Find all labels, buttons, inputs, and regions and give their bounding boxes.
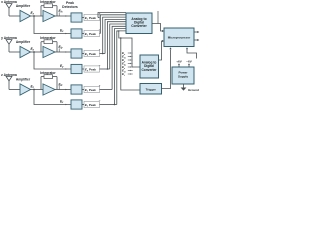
peak detector PD2 (Ex &#8722;) — [71, 29, 82, 38]
stray clock stub — [157, 11, 159, 24]
junction — [114, 104, 116, 106]
svg-text:Ey Peak: Ey Peak — [85, 52, 96, 57]
wire bus4 — [105, 19, 126, 53]
label box Ey Peak+ — [84, 50, 100, 56]
antenna x — [6, 4, 12, 9]
svg-text:−: − — [99, 63, 101, 67]
wire ADC2 to microprocessor — [159, 41, 163, 60]
svg-text:Integrator: Integrator — [40, 71, 56, 75]
wire amp out / node Ez — [31, 89, 44, 91]
ADC U1 Analog to Digital Converter — [126, 13, 152, 34]
svg-text:Supply: Supply — [178, 75, 188, 79]
label box Ex Peak&#8722; — [84, 30, 100, 36]
wire node Ez down to lower peak detector — [34, 90, 71, 105]
wire integrator out to peak detector — [55, 15, 71, 17]
wire antenna to amplifier — [9, 15, 20, 17]
svg-text:Integrator: Integrator — [40, 0, 56, 4]
ground — [183, 84, 185, 88]
wire bus3 — [103, 17, 126, 53]
label box Ey Peak&#8722; — [84, 66, 100, 72]
svg-text:Ez Peak: Ez Peak — [85, 103, 96, 108]
antenna y — [6, 40, 12, 45]
wire microprocessor bottom stub — [187, 50, 197, 59]
power supply PS1 — [172, 67, 194, 84]
wire bus2 — [100, 15, 126, 34]
peak detector PD4 (Ey &#8722;) — [71, 64, 82, 73]
svg-text:Amplifier: Amplifier — [16, 78, 31, 82]
svg-text:Ez Peak: Ez Peak — [85, 88, 96, 93]
wire microprocessor out right 2 — [194, 39, 198, 41]
peak detector PD3 (Ey +) — [71, 49, 82, 58]
svg-text:Ground: Ground — [188, 88, 199, 92]
wire ADC1 to microprocessor — [152, 24, 163, 32]
wire to E-column bus — [117, 30, 119, 32]
wire antenna to amplifier — [9, 51, 20, 53]
wire microprocessor out right 1 — [194, 31, 198, 33]
wire trigger to microprocessor — [162, 50, 171, 89]
svg-text:Ex Peak: Ex Peak — [85, 32, 96, 37]
wire to trigger — [121, 38, 140, 90]
trigger U4 — [140, 84, 162, 95]
peak detector PD1 (Ex +) — [71, 13, 82, 22]
wire bus1 — [98, 13, 126, 18]
svg-text:Amplifier: Amplifier — [16, 4, 31, 8]
wire node Ex down to lower peak detector — [34, 16, 71, 34]
svg-text:Ey Peak: Ey Peak — [85, 67, 96, 72]
wire bus9 — [117, 31, 126, 105]
wire node Ey down to lower peak detector — [34, 52, 71, 69]
wire integrator out to peak detector — [55, 51, 71, 53]
junction — [107, 68, 109, 70]
ADC U3 Analog to Digital Converter — [140, 55, 159, 78]
wire amp out / node Ey — [31, 51, 44, 53]
svg-text:Microprocessor: Microprocessor — [168, 36, 191, 40]
wire bus7 — [112, 26, 126, 89]
wire bus5 — [107, 22, 126, 69]
svg-text:Ex Peak: Ex Peak — [85, 16, 96, 21]
wire antenna to amplifier — [9, 89, 20, 91]
svg-text:−6V: −6V — [186, 60, 191, 64]
svg-text:Converter: Converter — [131, 24, 147, 28]
wire PD5 out — [82, 89, 84, 91]
svg-text:+6V: +6V — [176, 60, 181, 64]
peak detector PD6 (Ez &#8722;) — [71, 100, 82, 109]
wire PD3 out — [82, 53, 84, 55]
peak detector PD5 (Ez +) — [71, 85, 82, 94]
wire integrator out to peak detector — [55, 89, 71, 91]
svg-text:Integrator: Integrator — [40, 36, 56, 40]
wire PD2 out — [82, 33, 84, 35]
junction — [102, 53, 104, 55]
label box Ex Peak+ — [84, 14, 100, 20]
microprocessor U2 — [164, 28, 194, 47]
svg-text:Converter: Converter — [141, 68, 157, 72]
svg-text:+: + — [99, 83, 101, 87]
svg-text:Trigger: Trigger — [146, 88, 157, 92]
svg-text:+: + — [99, 47, 101, 51]
wire PD1 out — [82, 17, 84, 19]
antenna z — [6, 76, 12, 81]
wire PD4 out — [82, 68, 84, 70]
svg-text:Amplifier: Amplifier — [16, 40, 31, 44]
svg-text:−: − — [99, 98, 101, 102]
label box Ez Peak&#8722; — [84, 101, 100, 107]
wire amp out / node Ex — [31, 15, 44, 17]
wire bus6 — [110, 24, 126, 69]
wire PD6 out — [82, 104, 84, 106]
wire bus8 — [114, 29, 126, 105]
label box Ez Peak+ — [84, 86, 100, 92]
svg-text:Detectors: Detectors — [62, 5, 78, 9]
